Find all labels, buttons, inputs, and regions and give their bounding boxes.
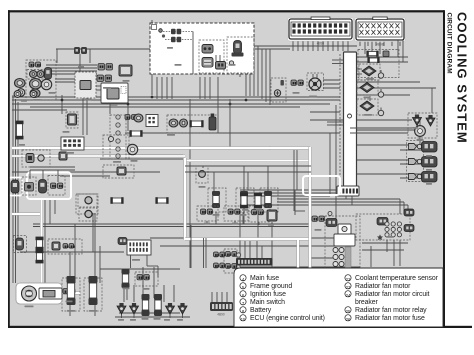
connector pair near ecu bottom 1 bbox=[312, 216, 324, 221]
legend column 2 bbox=[345, 275, 439, 323]
handlebar switch sub box C bbox=[227, 37, 254, 73]
dashed enclosure fuse 2 bbox=[84, 278, 102, 311]
connector 2 bbox=[25, 183, 34, 192]
dashed enclosure frame ground ring bbox=[307, 73, 324, 91]
wire stubs left of ecu bbox=[332, 59, 343, 61]
component cluster diode bbox=[119, 65, 132, 76]
dashed enclosure battery connectors bbox=[76, 194, 98, 214]
relay cluster connector bbox=[63, 244, 75, 249]
main switch white box bbox=[101, 83, 128, 103]
handlebar switch capsule C1 bbox=[234, 41, 242, 54]
wire bundle verticals right of top box bbox=[249, 46, 251, 96]
wire center drops bbox=[215, 212, 217, 224]
white wire bottom horizontal of loop bbox=[185, 237, 311, 240]
dashed enclosure left bundle lower comp bbox=[14, 236, 27, 253]
wire bar feeds bbox=[244, 241, 246, 258]
fan fuse vertical 1 bbox=[142, 294, 150, 316]
small circle left E bbox=[14, 91, 21, 98]
connector B backplate bbox=[355, 18, 406, 42]
legend box bbox=[234, 268, 443, 327]
main fuse vertical big 2 bbox=[89, 276, 98, 305]
svg-text:26: 26 bbox=[346, 317, 351, 322]
right stack hood 2 bbox=[422, 157, 438, 168]
sensor ring stub 2 bbox=[378, 89, 383, 97]
wire bottom row verticals bbox=[123, 285, 125, 302]
fan motor ring bbox=[415, 126, 426, 137]
ground cluster marks bbox=[281, 80, 284, 86]
right stack ring pair 3 bbox=[409, 174, 422, 180]
fan relay star mark bbox=[377, 234, 383, 240]
svg-text:Radiator fan motor relay: Radiator fan motor relay bbox=[355, 307, 427, 314]
white wire battery top horizontal bbox=[12, 213, 40, 216]
frame ground leads right bbox=[323, 79, 340, 81]
wire right side horizontals from ECU bbox=[357, 56, 408, 58]
white wire main horizontal bbox=[12, 146, 310, 149]
wire connector rows left bbox=[46, 64, 97, 66]
oval connector left C bbox=[30, 79, 42, 90]
coolant sensor diamond 3 bbox=[360, 101, 374, 111]
wire bottom connector feeds bbox=[211, 292, 213, 302]
breaker contact rings bbox=[333, 248, 344, 253]
fuse pair right of ecu row 1 bbox=[366, 51, 378, 57]
svg-text:4B90: 4B90 bbox=[217, 313, 225, 317]
svg-text:4B90: 4B90 bbox=[317, 42, 325, 46]
ECU vertical bar bbox=[339, 54, 341, 187]
right stack ring pair 2 bbox=[409, 159, 422, 165]
dashed enclosure fuse 1 bbox=[62, 278, 80, 311]
connector pair left of ground bbox=[291, 80, 303, 85]
fan fuse vertical 2 bbox=[154, 294, 162, 316]
svg-text:Main fuse: Main fuse bbox=[250, 275, 279, 282]
svg-text:ECU (engine control unit): ECU (engine control unit) bbox=[250, 315, 325, 322]
dashed enclosure circuit breaker tall bbox=[325, 216, 360, 270]
right stack hood 1 bbox=[422, 142, 438, 153]
dashed component mid bbox=[68, 114, 77, 125]
wire fuse columns verticals bbox=[69, 252, 71, 283]
inline fuse battery column 2 bbox=[36, 250, 44, 264]
dashed enclosure bottom cluster bbox=[135, 272, 158, 286]
wire connector B leads bbox=[359, 40, 361, 46]
white wire battery feed stub bbox=[60, 292, 80, 295]
wire right-bottom verticals bbox=[243, 190, 245, 224]
breaker shaded strip bbox=[345, 247, 351, 270]
small circle left F bbox=[30, 91, 37, 98]
dark component lower bbox=[59, 152, 67, 160]
capsule component 3 bbox=[39, 180, 47, 194]
switch inner verticals bbox=[215, 55, 217, 61]
svg-text:25: 25 bbox=[346, 309, 351, 314]
wire ecu drops bbox=[345, 194, 347, 199]
left bundle lower component bbox=[16, 238, 24, 250]
fan cluster pin bar bbox=[236, 258, 273, 266]
dashed enclosure diamond 2 bbox=[357, 80, 378, 95]
svg-text:Main switch: Main switch bbox=[250, 299, 285, 306]
main switch ring bbox=[41, 79, 51, 89]
main fuse inline pair A bbox=[110, 197, 123, 204]
wire bundle left edge vertical bbox=[12, 95, 14, 283]
center row bolt component bbox=[209, 114, 216, 131]
joint connector dashed white box bbox=[75, 72, 96, 98]
wire connector B side drops bbox=[397, 40, 399, 57]
handlebar switch component B2 bbox=[202, 58, 213, 68]
dashed enclosure ground cluster bbox=[271, 78, 286, 102]
starter relay drop bbox=[130, 255, 132, 268]
wire harness connector B bbox=[356, 17, 404, 40]
wire top-left horizontal run bbox=[56, 48, 152, 50]
sensor triangle 3 bbox=[166, 303, 175, 314]
starter relay block bbox=[127, 240, 151, 255]
dashed enclosure center fuse 1 bbox=[208, 188, 226, 212]
relay cluster component bbox=[52, 242, 60, 250]
breaker sub box with ring bbox=[338, 224, 351, 234]
main switch contacts column bbox=[116, 115, 120, 119]
svg-text:23: 23 bbox=[346, 285, 351, 290]
wire harness connector A bbox=[289, 17, 352, 39]
wire triangle stems bbox=[121, 314, 123, 318]
center row inline fuse bbox=[189, 120, 203, 127]
white wire secondary horizontal upper bbox=[12, 155, 185, 158]
connector pair mid 1 bbox=[98, 64, 113, 71]
dashed enclosure center fuse 2 bbox=[236, 188, 254, 212]
connector 4 bbox=[51, 183, 63, 188]
svg-text:4B9B: 4B9B bbox=[376, 43, 384, 47]
oval connector left D bbox=[30, 89, 40, 98]
fuse pair right of ecu row 2 bbox=[367, 57, 379, 63]
inline fuse battery column 1 bbox=[36, 237, 44, 251]
svg-text:15: 15 bbox=[241, 317, 246, 322]
handlebar switch capsule base bbox=[232, 53, 244, 57]
switch contact pair 1 bbox=[171, 29, 181, 34]
coolant sensor diamond 1 bbox=[362, 66, 376, 76]
center connector pair 1 bbox=[201, 209, 213, 214]
svg-text:Radiator fan motor circuit: Radiator fan motor circuit bbox=[355, 291, 430, 298]
svg-text:Radiator fan motor: Radiator fan motor bbox=[355, 283, 411, 290]
center vertical fuse 1 bbox=[212, 191, 220, 208]
svg-text:Battery: Battery bbox=[250, 307, 272, 314]
dashed enclosure fan motor bbox=[408, 113, 437, 138]
component pair right of switch bbox=[125, 115, 137, 120]
wire extra left horizontals bbox=[12, 109, 67, 111]
connector A backplate bbox=[288, 18, 354, 42]
dashed enclosure center row bbox=[167, 115, 218, 133]
dashed enclosure ring pair lower bbox=[79, 208, 97, 221]
wire drops center-bottom bbox=[190, 225, 192, 268]
wire loop interior verticals bbox=[213, 172, 215, 191]
triangle right 1 bbox=[413, 115, 422, 126]
fan connector cluster pair 2 bbox=[226, 252, 238, 257]
right stack ring pair 1 bbox=[409, 144, 422, 150]
wire stub right-bottom bbox=[295, 210, 305, 212]
frame bottom border bbox=[8, 326, 472, 328]
dashed enclosure lower-mid bbox=[103, 165, 134, 178]
svg-text:Ignition fuse: Ignition fuse bbox=[250, 291, 286, 298]
frame top border bbox=[8, 10, 444, 12]
battery bbox=[16, 283, 62, 304]
wire main horizontal bus upper bbox=[12, 96, 340, 98]
frame ground stubs bbox=[312, 74, 314, 78]
ignition connector block bbox=[61, 137, 84, 150]
small comp near ecu bottom bbox=[326, 219, 337, 227]
svg-text:breaker: breaker bbox=[355, 299, 378, 306]
wire mid horizontals bbox=[125, 132, 340, 134]
fan connector cluster pair 1 bbox=[214, 252, 226, 257]
wire verticals center bbox=[92, 213, 94, 252]
dashed enclosure center pair 3 bbox=[249, 206, 270, 222]
center vertical fuse 3 bbox=[264, 191, 272, 208]
junction dots bbox=[61, 84, 272, 150]
dashed enclosure left connector cluster bbox=[26, 60, 56, 100]
component in dashed box bbox=[117, 167, 126, 175]
row1 extra item bbox=[383, 51, 389, 57]
handlebar switch label bbox=[152, 25, 157, 30]
center connector pair 2 bbox=[228, 209, 240, 214]
white wire left loop vertical bbox=[183, 158, 186, 240]
handlebar switch bottom connector bbox=[216, 62, 226, 70]
dashed enclosure coil bbox=[103, 135, 129, 159]
legend column 1 bbox=[240, 275, 325, 323]
frame left border bbox=[8, 10, 10, 327]
handlebar switch component B1 bbox=[202, 45, 213, 54]
fan relay contact grid bbox=[385, 222, 402, 237]
ground cluster ring bbox=[274, 90, 280, 96]
capsule component 1 bbox=[11, 180, 19, 193]
white wire battery column vertical bbox=[40, 198, 43, 286]
vertical capsule left cluster bbox=[45, 68, 52, 80]
wire verticals from left cluster down bbox=[56, 49, 58, 63]
round connector left B bbox=[17, 89, 25, 97]
x-pin connector bbox=[146, 115, 158, 127]
ignition coil ring bbox=[127, 144, 137, 154]
fan cluster ring bbox=[236, 253, 240, 257]
dashed enclosure oval pair bbox=[27, 70, 44, 80]
svg-text:COOLING SYSTEM: COOLING SYSTEM bbox=[455, 12, 470, 144]
bottom multi-pin connector bbox=[210, 302, 233, 311]
main fuse vertical big 1 bbox=[67, 276, 76, 305]
battery terminal box bbox=[39, 288, 62, 299]
dashed enclosure ring pair upper bbox=[78, 194, 97, 207]
bottom cluster components bbox=[137, 275, 149, 280]
white outline loop battery connectors bbox=[27, 173, 71, 200]
dashed enclosure right stack bbox=[407, 141, 424, 182]
white wire loop corner down bbox=[297, 240, 300, 268]
ignition fuse vertical bbox=[122, 269, 130, 288]
switch contact circle 2 bbox=[162, 34, 165, 37]
small relay top bbox=[74, 47, 87, 54]
dashed enclosure fan connector column bbox=[224, 249, 237, 273]
fan connector cluster pair 3 bbox=[214, 263, 226, 268]
dashed enclosure relay cluster bbox=[48, 239, 82, 254]
dashed enclosure mid component bbox=[66, 112, 78, 128]
coolant sensor diamond 2 bbox=[360, 83, 374, 93]
handlebar switch ring C bbox=[229, 61, 233, 65]
sensor ring stub 1 bbox=[378, 70, 383, 78]
hood pair above relay box bbox=[404, 209, 414, 216]
dashed enclosure center pair 2 bbox=[224, 206, 248, 221]
small ring near ecu bottom bbox=[328, 212, 332, 216]
handlebar switch sub box B bbox=[199, 40, 224, 73]
starter relay hood bbox=[118, 238, 127, 245]
dashed enclosure diamond 3 bbox=[357, 99, 378, 115]
wire top-left of top box bbox=[150, 45, 255, 47]
svg-text:22: 22 bbox=[346, 277, 351, 282]
wire loop interior horizontals bbox=[185, 165, 311, 167]
dashed enclosure diode box left bbox=[22, 150, 50, 167]
dashed enclosure center pair 1 bbox=[197, 206, 218, 221]
center row connector a bbox=[169, 119, 178, 127]
battery lead connector bbox=[63, 289, 75, 294]
connector pair top-left 1 bbox=[29, 62, 41, 67]
sensor triangle 1 bbox=[117, 303, 126, 314]
switch dashed leads bbox=[163, 31, 193, 33]
breaker main box bbox=[334, 234, 355, 246]
wire ecu-right bundle bbox=[350, 127, 412, 129]
handlebar switch white box bbox=[150, 23, 254, 74]
wire corner verticals below ground bbox=[293, 150, 295, 211]
ring component lower bbox=[85, 210, 92, 217]
white wire right vertical to fan motor bbox=[308, 147, 311, 298]
fan relay hood component bbox=[377, 218, 388, 226]
triangle right 2 bbox=[426, 115, 435, 126]
ring component upper bbox=[85, 197, 92, 204]
oval connector mid bbox=[134, 114, 143, 122]
switch contact pair 2 bbox=[171, 37, 181, 42]
sensor ring stub 3 bbox=[378, 108, 383, 116]
wire drops to cluster bbox=[30, 166, 75, 168]
sensor triangle 2 bbox=[130, 303, 139, 314]
switch contact circle 1 bbox=[159, 29, 163, 33]
connector pair mid 2 bbox=[97, 75, 112, 82]
center connector pair 3 bbox=[252, 210, 264, 215]
oval connector left A bbox=[15, 79, 26, 88]
ECU bottom connector bbox=[337, 186, 359, 196]
svg-text:Coolant temperature sensor: Coolant temperature sensor bbox=[355, 275, 439, 282]
sensor triangle 4 bbox=[178, 303, 187, 314]
dashed circle component bbox=[196, 166, 208, 183]
svg-text:24: 24 bbox=[346, 293, 351, 298]
fan connector cluster pair 4 bbox=[226, 264, 238, 269]
fuse vertical right-bottom 1 bbox=[240, 193, 248, 209]
white wire loop top bbox=[185, 159, 311, 162]
hood pair right of relay box bbox=[404, 225, 414, 232]
white loop box around fan relay connectors bbox=[303, 176, 340, 195]
fuse vertical right-bottom 2 bbox=[254, 193, 262, 209]
oval pair small bbox=[30, 71, 38, 78]
dashed enclosure fan relay bbox=[356, 214, 410, 240]
diode box item 2 bbox=[38, 155, 44, 161]
inline fuse left bundle bbox=[16, 121, 24, 140]
dashed enclosure center fuse 3 bbox=[260, 188, 278, 212]
white outline capsule 1 bbox=[9, 178, 23, 196]
ignition fuse inline bbox=[129, 130, 142, 137]
wire ecu top leads bbox=[292, 39, 294, 51]
frame ground ring bbox=[309, 78, 321, 90]
frame right vertical rule bbox=[443, 10, 445, 327]
right stack hood 3 bbox=[422, 172, 438, 183]
center row connector b bbox=[180, 119, 188, 127]
dashed enclosure diamond 1 bbox=[359, 64, 380, 80]
dashed enclosure ecu right rows bbox=[358, 50, 399, 78]
dashed enclosure main switch column bbox=[110, 115, 126, 159]
dashed enclosure connector 2 bbox=[22, 177, 36, 195]
svg-text:Radiator fan motor fuse: Radiator fan motor fuse bbox=[355, 315, 425, 322]
svg-text:CIRCUIT DIAGRAM: CIRCUIT DIAGRAM bbox=[446, 13, 453, 74]
diode box item 1 bbox=[26, 154, 34, 163]
dashed enclosure connector 4 bbox=[48, 176, 65, 196]
svg-text:Frame ground: Frame ground bbox=[250, 283, 292, 290]
small ring left of coil bbox=[108, 136, 113, 141]
wire verticals battery column bbox=[44, 198, 46, 283]
center vertical fuse 2 bbox=[240, 191, 248, 208]
ecu output arrows bbox=[345, 190, 354, 194]
main fuse inline pair B bbox=[155, 197, 168, 204]
small box right-bottom bbox=[267, 210, 277, 221]
